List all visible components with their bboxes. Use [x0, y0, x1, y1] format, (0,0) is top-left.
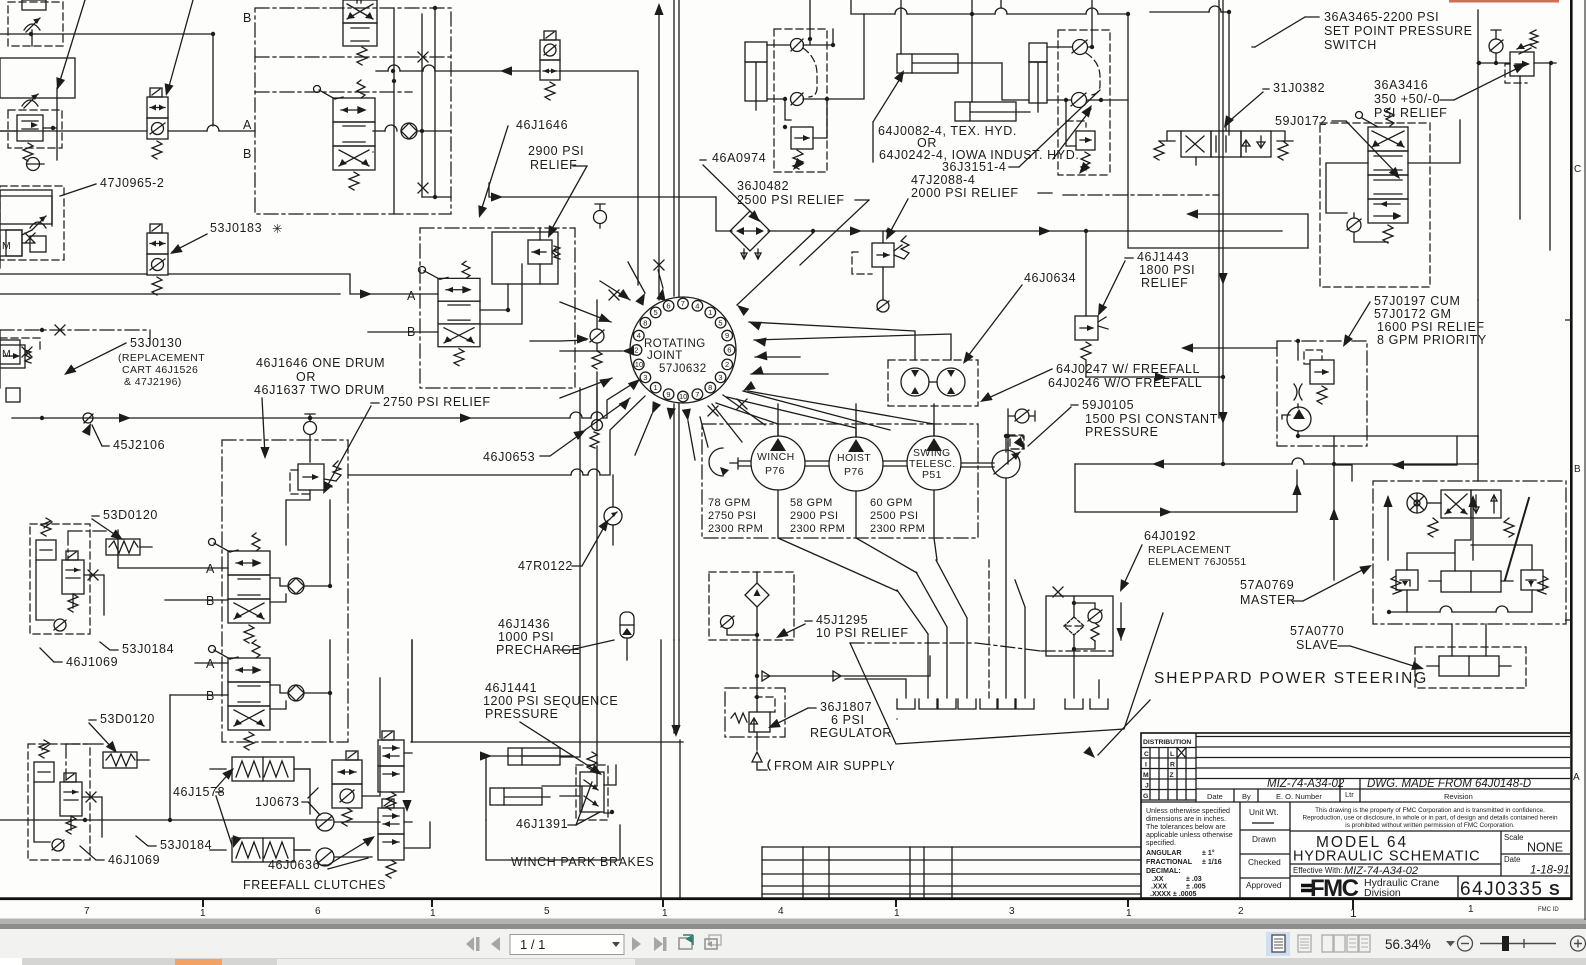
winch pump P76: [751, 436, 805, 490]
svg-text:64J0192: 64J0192: [1144, 529, 1196, 543]
distribution grid: [1141, 748, 1196, 801]
svg-text:FREEFALL CLUTCHES: FREEFALL CLUTCHES: [243, 878, 386, 892]
svg-text:Scale: Scale: [1504, 833, 1524, 842]
page box: [510, 935, 624, 955]
svg-text:45J1295: 45J1295: [816, 613, 868, 627]
svg-text:46J1646 ONE DRUM: 46J1646 ONE DRUM: [256, 356, 385, 370]
priority valve block 57J0197: [1277, 339, 1367, 446]
svg-text:ROTATING: ROTATING: [644, 338, 706, 350]
svg-text:57A0770: 57A0770: [1290, 624, 1344, 638]
steering wheel: [1407, 493, 1427, 513]
svg-text:S: S: [1549, 882, 1560, 899]
svg-text:8 GPM PRIORITY: 8 GPM PRIORITY: [1377, 333, 1487, 347]
svg-text:Date: Date: [1504, 855, 1520, 864]
svg-text:36A3416: 36A3416: [1374, 78, 1428, 92]
zoom out: [1458, 936, 1473, 951]
svg-text:10: 10: [679, 392, 687, 401]
svg-text:HOIST: HOIST: [837, 452, 871, 464]
tank funnel: [850, 613, 1163, 744]
svg-text:Checked: Checked: [1248, 857, 1281, 867]
svg-text:2000 PSI RELIEF: 2000 PSI RELIEF: [911, 186, 1019, 200]
wires left of steering: [1395, 437, 1457, 465]
svg-text:4: 4: [637, 331, 641, 340]
svg-text:MIZ-74-A34-02: MIZ-74-A34-02: [1267, 778, 1345, 790]
dash rail: [0, 330, 150, 345]
wire into priority block: [1184, 347, 1277, 349]
svg-text:64J0082-4, TEX. HYD.: 64J0082-4, TEX. HYD.: [878, 124, 1017, 138]
page edge shadow: [0, 919, 1586, 925]
svg-text:1J0673: 1J0673: [255, 795, 300, 809]
svg-text:1: 1: [1468, 904, 1474, 915]
svg-text:5: 5: [544, 906, 550, 917]
swing/telesc pump: [907, 436, 961, 490]
svg-text:WINCH PARK BRAKES: WINCH PARK BRAKES: [511, 855, 654, 869]
svg-text:CART 46J1526: CART 46J1526: [122, 364, 198, 376]
svg-text:OR: OR: [296, 370, 316, 384]
x marks near joint: [609, 290, 619, 300]
svg-text:46J1436: 46J1436: [498, 617, 550, 631]
svg-text:ANGULAR: ANGULAR: [1146, 849, 1181, 857]
svg-text:57J0172 GM: 57J0172 GM: [1374, 307, 1452, 321]
revision continuation table bottom center: [762, 847, 1141, 897]
lower-left valve cluster 47J0965 second: [0, 186, 64, 260]
orange annotation bar top right: [1449, 0, 1559, 3]
46J1069 cluster lower: [28, 740, 102, 860]
relief 47J2088 2000psi: [852, 231, 909, 312]
valve section top: [343, 0, 377, 46]
svg-text:(REPLACEMENT: (REPLACEMENT: [118, 352, 205, 364]
svg-text:46J1441: 46J1441: [485, 681, 537, 695]
tool icons: [679, 935, 721, 949]
top right cylinders: [851, 0, 1130, 121]
dash rail: [1063, 194, 1219, 196]
air supply: [752, 752, 767, 770]
svg-text:2300 RPM: 2300 RPM: [870, 523, 925, 535]
pump outlet verticals: [778, 404, 934, 437]
svg-text:36A3465-2200 PSI: 36A3465-2200 PSI: [1324, 10, 1439, 24]
svg-text:B: B: [243, 11, 252, 25]
svg-text:3: 3: [1009, 906, 1015, 917]
svg-text:FMC ID: FMC ID: [1538, 907, 1559, 913]
gauge 47R0122: [604, 507, 622, 525]
svg-text:2900 PSI: 2900 PSI: [528, 144, 584, 158]
svg-text:Ltr: Ltr: [1345, 790, 1354, 799]
valve 31J0382: [1154, 123, 1293, 165]
svg-text:dimensions are in inches.: dimensions are in inches.: [1146, 815, 1226, 823]
sequence valve 46J1391: [576, 765, 608, 820]
svg-text:Effective With:: Effective With:: [1293, 866, 1343, 875]
pressure comp cluster top-left (47J0965-2 family): [8, 0, 63, 46]
relief 36A3416: [1477, 30, 1556, 83]
check valve right: [373, 130, 385, 132]
svg-text:DWG. MADE FROM 64J0148-D: DWG. MADE FROM 64J0148-D: [1367, 778, 1531, 790]
svg-text:.XXXX ± .0005: .XXXX ± .0005: [1150, 890, 1197, 898]
wires into winch valves: [118, 530, 228, 695]
svg-text:10: 10: [635, 360, 643, 369]
steering block 57A0769: [1373, 481, 1566, 624]
svg-text:64J0246 W/O FREEFALL: 64J0246 W/O FREEFALL: [1048, 376, 1202, 390]
svg-text:64J0335: 64J0335: [1460, 879, 1543, 900]
svg-text:10 PSI RELIEF: 10 PSI RELIEF: [816, 626, 909, 640]
svg-text:8: 8: [708, 383, 712, 392]
filter 36J0482: [730, 211, 770, 251]
59J0172 valve block: [1320, 108, 1430, 287]
left edge motor stubs: [0, 230, 22, 256]
svg-text:5: 5: [718, 318, 722, 327]
main area: [1240, 802, 1290, 898]
svg-text:78 GPM: 78 GPM: [708, 497, 751, 509]
svg-text:A: A: [206, 562, 215, 576]
svg-text:DISTRIBUTION: DISTRIBUTION: [1143, 739, 1191, 746]
svg-text:2500 PSI RELIEF: 2500 PSI RELIEF: [737, 193, 845, 207]
zone letters: [1573, 164, 1581, 783]
svg-text:1: 1: [708, 308, 712, 317]
svg-text:2300 RPM: 2300 RPM: [790, 523, 845, 535]
brake circuit: [480, 748, 616, 820]
svg-text:53J0130: 53J0130: [130, 336, 182, 350]
wires right of freefall: [404, 640, 430, 848]
svg-text:53J0183: 53J0183: [210, 221, 262, 235]
svg-text:A: A: [1573, 772, 1580, 783]
wire: single vertical with up arrow: [658, 8, 660, 300]
svg-text:applicable unless otherwise: applicable unless otherwise: [1146, 831, 1233, 839]
svg-text:SLAVE: SLAVE: [1296, 638, 1338, 652]
dash-dot rails: [255, 57, 451, 92]
relief 2750: [290, 470, 310, 494]
svg-text:M: M: [1143, 772, 1149, 779]
svg-text:Drawn: Drawn: [1252, 834, 1276, 844]
svg-text:SHEPPARD POWER STEERING: SHEPPARD POWER STEERING: [1154, 670, 1428, 687]
svg-text:9: 9: [725, 331, 729, 340]
svg-text:SWITCH: SWITCH: [1324, 38, 1377, 52]
svg-text:1: 1: [200, 908, 206, 919]
load sense check: [1015, 409, 1029, 423]
46J1646 relief block: [419, 204, 607, 388]
svg-text:B: B: [206, 594, 215, 608]
svg-text:E. O. Number: E. O. Number: [1276, 792, 1322, 801]
relief 46J1443: [1075, 229, 1108, 377]
svg-text:46J0636: 46J0636: [268, 858, 320, 872]
46J1069 cluster upper: [30, 518, 104, 634]
45J1295 block: [709, 572, 794, 640]
regulator 36J1807: [725, 640, 785, 750]
svg-text:PRESSURE: PRESSURE: [485, 707, 559, 721]
wires: [1086, 376, 1223, 378]
next/last: [632, 937, 667, 951]
svg-text:46A0974: 46A0974: [712, 151, 766, 165]
svg-text:I: I: [1145, 762, 1147, 769]
svg-text:Revision: Revision: [1444, 792, 1473, 801]
svg-text:31J0382: 31J0382: [1273, 81, 1325, 95]
svg-text:REGULATOR: REGULATOR: [810, 726, 892, 740]
svg-text:36J0482: 36J0482: [737, 179, 789, 193]
svg-text:6: 6: [315, 906, 321, 917]
cylinder with dual pilot checks (64J0082 group): [1029, 0, 1128, 177]
svg-text:47J2088-4: 47J2088-4: [911, 173, 975, 187]
master cylinder: [1441, 571, 1501, 592]
svg-text:SET POINT PRESSURE: SET POINT PRESSURE: [1324, 24, 1473, 38]
svg-text:L: L: [1170, 751, 1174, 758]
svg-text:46J1069: 46J1069: [66, 655, 118, 669]
svg-text:58 GPM: 58 GPM: [790, 497, 833, 509]
tick marks on bottom margin: [203, 900, 1353, 909]
svg-text:53D0120: 53D0120: [103, 508, 158, 522]
svg-text:is prohibited without written: is prohibited without written permission…: [1345, 822, 1515, 829]
tolerance text: [1146, 807, 1233, 898]
svg-text:53J0184: 53J0184: [160, 838, 212, 852]
shuttle 53D0120: [106, 539, 140, 555]
zoom in: [1571, 936, 1586, 951]
svg-text:2: 2: [1238, 906, 1244, 917]
swing variable pump right: [992, 450, 1020, 478]
svg-text:RELIEF: RELIEF: [1141, 276, 1188, 290]
svg-text:1-18-91: 1-18-91: [1530, 865, 1570, 877]
svg-text:B: B: [206, 689, 215, 703]
svg-text:2300 RPM: 2300 RPM: [708, 523, 763, 535]
svg-text:2: 2: [634, 346, 638, 355]
svg-text:46J1069: 46J1069: [108, 853, 160, 867]
svg-text:6 PSI: 6 PSI: [831, 713, 865, 727]
svg-text:FROM AIR SUPPLY: FROM AIR SUPPLY: [774, 759, 895, 773]
svg-text:A: A: [407, 289, 416, 303]
svg-text:46J1646: 46J1646: [516, 118, 568, 132]
wire: center double vertical trunk: [674, 0, 679, 640]
svg-text:1: 1: [1126, 908, 1132, 919]
svg-text:PRESSURE: PRESSURE: [1085, 425, 1159, 439]
valve 53J0184 (mid): [332, 751, 362, 826]
leader arrow: [59, 0, 85, 84]
svg-text:36J3151-4: 36J3151-4: [942, 160, 1006, 174]
svg-text:64J0247 W/ FREEFALL: 64J0247 W/ FREEFALL: [1056, 362, 1200, 376]
wire trunk verticals right: [1219, 0, 1229, 418]
svg-text:Unit Wt.: Unit Wt.: [1249, 807, 1279, 817]
air arrows pair: [762, 656, 930, 681]
svg-text:C: C: [1574, 164, 1581, 175]
sheet bottom border heavy line: [0, 897, 1572, 900]
svg-text:7: 7: [695, 390, 699, 399]
center verticals to bottom: [412, 640, 680, 897]
valve on y71 (53J0183 family): [540, 31, 560, 100]
svg-text:2750 PSI RELIEF: 2750 PSI RELIEF: [383, 395, 491, 409]
vertical cylinder top middle: [745, 42, 767, 110]
filter 64J0192 block: [1046, 587, 1113, 698]
svg-text:53D0120: 53D0120: [100, 712, 155, 726]
svg-text:46J1443: 46J1443: [1137, 250, 1189, 264]
svg-text:46J1637 TWO DRUM: 46J1637 TWO DRUM: [254, 383, 385, 397]
svg-text:Reproduction, use or disclosur: Reproduction, use or disclosure, in whol…: [1302, 815, 1558, 822]
svg-text:47J0965-2: 47J0965-2: [100, 176, 164, 190]
svg-text:2500 PSI: 2500 PSI: [870, 510, 918, 522]
svg-text:57A0769: 57A0769: [1240, 578, 1294, 592]
manifold outline box: [0, 58, 75, 98]
svg-text:56.34%: 56.34%: [1385, 937, 1431, 952]
svg-text:P76: P76: [844, 466, 864, 478]
relief cart component: [0, 190, 52, 402]
svg-text:46J1391: 46J1391: [516, 817, 568, 831]
winch dvalve upper: [209, 533, 271, 643]
svg-text:350 +50/-0: 350 +50/-0: [1374, 92, 1440, 106]
svg-text:± 1°: ± 1°: [1202, 849, 1215, 857]
shaft: [730, 458, 907, 469]
hoist valve bank box: [255, 0, 451, 214]
svg-text:FMC: FMC: [1310, 875, 1359, 902]
svg-text:The tolerances below are: The tolerances below are: [1146, 823, 1226, 831]
svg-text:G: G: [1143, 793, 1148, 800]
svg-text:1200 PSI SEQUENCE: 1200 PSI SEQUENCE: [483, 694, 618, 708]
test point 45J2106: [83, 413, 93, 423]
suction pipes: [845, 679, 906, 698]
verticals: [394, 8, 435, 214]
svg-text:Unless otherwise specified: Unless otherwise specified: [1146, 807, 1230, 815]
svg-text:4: 4: [695, 301, 699, 310]
leader: [530, 340, 586, 341]
svg-text:1 / 1: 1 / 1: [520, 937, 545, 952]
svg-text:A: A: [206, 657, 215, 671]
svg-text:M: M: [2, 348, 11, 360]
svg-text:RELIEF: RELIEF: [530, 158, 577, 172]
svg-text:2750 PSI: 2750 PSI: [708, 510, 756, 522]
svg-text:1600 PSI RELIEF: 1600 PSI RELIEF: [1377, 320, 1485, 334]
steering valve: [1441, 490, 1471, 518]
svg-text:DECIMAL:: DECIMAL:: [1146, 867, 1181, 875]
svg-text:2: 2: [725, 360, 729, 369]
radial wires: [560, 233, 951, 460]
wire: main pressure line right: [716, 197, 1282, 231]
svg-text:59J0105: 59J0105: [1082, 398, 1134, 412]
svg-text:53J0184: 53J0184: [122, 642, 174, 656]
relief valve 47J0965-2: [0, 88, 62, 171]
internal wires: [1407, 545, 1532, 571]
svg-text:C: C: [1144, 751, 1149, 758]
svg-text:MASTER: MASTER: [1240, 593, 1296, 607]
svg-text:3: 3: [643, 373, 647, 382]
return arrow: [1120, 603, 1122, 640]
wire into 59J0172: [1190, 214, 1308, 248]
svg-text:1000 PSI: 1000 PSI: [498, 630, 554, 644]
wire y71 with return valve: [376, 70, 388, 72]
svg-text:ELEMENT 76J0551: ELEMENT 76J0551: [1148, 556, 1247, 568]
slider: [1480, 943, 1556, 945]
valve 53J0183 lower: [147, 224, 168, 295]
pilot check left of joint: [590, 329, 604, 343]
wire top feed: [357, 0, 361, 3]
svg-text:NONE: NONE: [1527, 841, 1563, 855]
svg-text:P51: P51: [922, 469, 942, 481]
vent check: [304, 422, 317, 435]
clutch springs 46J1578: [210, 757, 310, 862]
svg-text:57J0197 CUM: 57J0197 CUM: [1374, 294, 1461, 308]
wire: [0, 274, 438, 294]
svg-text:5: 5: [654, 308, 658, 317]
svg-text:47R0122: 47R0122: [518, 559, 573, 573]
svg-text:Date: Date: [1207, 792, 1223, 801]
radial arrows into joint: [618, 289, 633, 304]
ruler numbers on sheet bottom margin: [84, 904, 1559, 920]
svg-text:Z: Z: [1170, 772, 1174, 779]
pilot check block 46A0974: [767, 0, 864, 173]
svg-text:HYDRAULIC SCHEMATIC: HYDRAULIC SCHEMATIC: [1293, 849, 1480, 865]
svg-text:1500 PSI CONSTANT: 1500 PSI CONSTANT: [1085, 412, 1218, 426]
svg-text:P76: P76: [765, 465, 785, 477]
svg-text:WINCH: WINCH: [757, 451, 795, 463]
valve 53J0183 upper: [147, 88, 168, 159]
lever: [1505, 498, 1529, 580]
svg-text:1800 PSI: 1800 PSI: [1139, 263, 1195, 277]
svg-text:2900 PSI: 2900 PSI: [790, 510, 838, 522]
svg-text:By: By: [1242, 792, 1251, 801]
right border verticals: [1570, 0, 1573, 900]
right side page-view icons: [1266, 932, 1290, 956]
svg-text:B: B: [1574, 464, 1581, 475]
svg-text:REPLACEMENT: REPLACEMENT: [1148, 544, 1231, 556]
leader arrow: [168, 0, 193, 90]
slave cylinder: [1415, 624, 1526, 688]
pilot box above swing pump: [1008, 435, 1023, 449]
svg-text:6: 6: [666, 301, 670, 310]
wire y197: [489, 183, 716, 197]
svg-text:8: 8: [643, 318, 647, 327]
winch valve block: [209, 414, 349, 750]
svg-text:± 1/16: ± 1/16: [1202, 858, 1222, 866]
actuator circles: [316, 813, 334, 831]
svg-text:1: 1: [430, 908, 436, 919]
svg-text:Approved: Approved: [1246, 880, 1282, 890]
wire: steering feed branch: [1333, 464, 1335, 580]
svg-text:45J2106: 45J2106: [113, 438, 165, 452]
svg-text:1: 1: [662, 908, 668, 919]
svg-text:1: 1: [654, 383, 658, 392]
wire main supply: [12, 417, 570, 419]
svg-text:60 GPM: 60 GPM: [870, 497, 913, 509]
svg-text:46J0653: 46J0653: [483, 450, 535, 464]
svg-text:6: 6: [727, 346, 731, 355]
svg-text:46J0634: 46J0634: [1024, 271, 1076, 285]
revision area rules: [1141, 737, 1570, 803]
svg-text:7: 7: [681, 299, 685, 308]
svg-text:& 47J2196): & 47J2196): [124, 376, 182, 388]
toolbar: [0, 929, 1586, 958]
svg-text:Division: Division: [1364, 887, 1401, 899]
svg-text:This drawing is the property o: This drawing is the property of FMC Corp…: [1315, 807, 1545, 814]
svg-text:59J0172: 59J0172: [1275, 114, 1327, 128]
priority wires: [1075, 436, 1478, 464]
freefall valves 46J0636: [378, 731, 404, 878]
svg-text:specified.: specified.: [1146, 839, 1176, 847]
wires: [0, 678, 380, 820]
svg-text:A: A: [243, 118, 252, 132]
svg-text:3: 3: [718, 373, 722, 382]
lever valve: [314, 80, 376, 190]
svg-text:R: R: [1170, 762, 1175, 769]
specs text: [708, 497, 925, 535]
prev/first page arrows: [466, 937, 500, 951]
svg-text:PSI RELIEF: PSI RELIEF: [1374, 106, 1447, 120]
svg-text:4: 4: [778, 906, 784, 917]
svg-text:J: J: [1145, 783, 1149, 790]
svg-text:9: 9: [666, 390, 670, 399]
wire: [1128, 14, 1308, 248]
wire: [0, 34, 213, 126]
svg-text:36J1807: 36J1807: [820, 700, 872, 714]
hoist pump P76: [829, 437, 883, 491]
svg-text:57J0632: 57J0632: [659, 363, 707, 375]
svg-text:1: 1: [894, 908, 900, 919]
winch dvalve lower: [209, 640, 271, 750]
svg-text:✳: ✳: [272, 222, 283, 236]
wire A-line left: [0, 130, 207, 132]
svg-text:JOINT: JOINT: [647, 350, 683, 362]
toolbar widgets: [466, 932, 1586, 956]
